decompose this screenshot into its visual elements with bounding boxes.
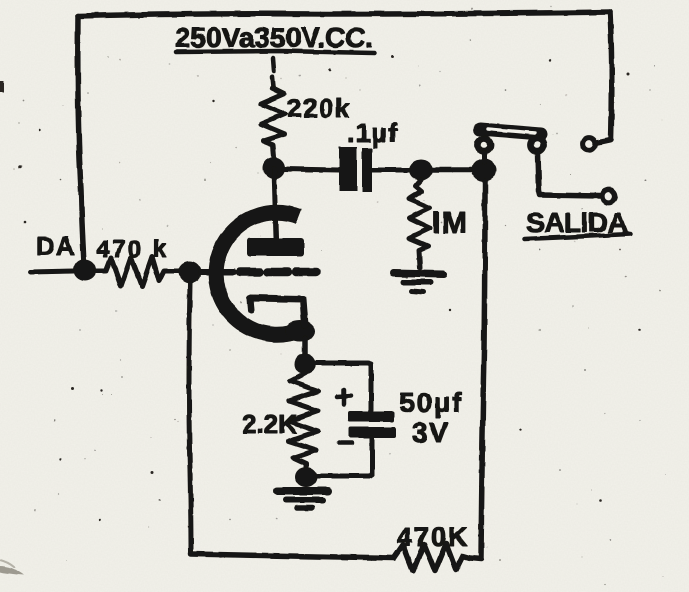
svg-text:DA: DA <box>36 231 77 261</box>
svg-text:470 k: 470 k <box>96 236 169 263</box>
node switch junction <box>472 159 497 182</box>
resistor 2.2k cathode <box>289 373 318 467</box>
resistor 220k (plate load) <box>261 88 285 157</box>
node B+ supply label 250V a 350V.CC. <box>175 22 374 87</box>
value label 1M <box>432 205 468 240</box>
node cathode bottom junction <box>295 467 317 487</box>
svg-text:.1µf: .1µf <box>347 118 398 148</box>
tube cathode bracket <box>250 298 305 325</box>
wire plate junction to coupling cap <box>284 169 339 170</box>
node plate junction <box>263 157 285 179</box>
switch throw right contact <box>530 138 543 151</box>
wire bottom-right corner up to switch node <box>470 181 485 559</box>
node cathode top junction <box>294 354 316 375</box>
switch arm (double line lever) <box>480 129 541 134</box>
wire top rail <box>78 12 610 16</box>
wire left side of feedback loop <box>189 283 191 554</box>
wire top-left vertical (DA node to top rail) <box>78 16 84 263</box>
resistor 1M (grid leak) <box>409 180 430 268</box>
svg-text:3V: 3V <box>412 417 449 448</box>
wire grid junction to tube <box>201 269 234 275</box>
svg-text:220k: 220k <box>287 93 351 123</box>
wire coupling cap to 1M node <box>372 168 411 173</box>
value label .1uf <box>347 118 398 148</box>
tube V1 envelope (C arc) <box>216 213 315 342</box>
tube plate bar <box>247 238 304 256</box>
wire switch left contact to junction <box>482 153 487 162</box>
wire 1M node to switch node <box>432 167 474 173</box>
polarity minus sign <box>339 441 352 446</box>
terminal top-right circle <box>583 138 596 151</box>
node 1M junction <box>409 160 433 181</box>
resistor 470k grid stopper <box>96 257 179 286</box>
tube grid (dashed) <box>240 268 318 277</box>
capacitor 50uf electrolytic <box>348 411 396 438</box>
ground under 1M <box>393 273 443 292</box>
label SALIDA <box>524 207 630 239</box>
node grid junction <box>179 261 202 283</box>
wire bypass cap bottom branch <box>317 438 372 476</box>
wire plate lead into tube <box>274 168 276 238</box>
wire cathode lead to cathode node <box>302 338 308 355</box>
svg-text:2.2K: 2.2K <box>242 409 297 439</box>
ground under 2.2k <box>277 491 328 508</box>
switch pole left contact <box>477 138 490 151</box>
wire right vertical from top rail down to output terminal <box>597 12 612 143</box>
svg-text:250Va350V.CC.: 250Va350V.CC. <box>175 22 373 53</box>
svg-text:470K: 470K <box>397 522 470 552</box>
wire bypass cap top branch <box>316 363 371 410</box>
svg-text:IM: IM <box>432 205 468 240</box>
wire bottom rail <box>191 554 394 558</box>
terminal salida output circle <box>603 190 616 203</box>
wire switch right contact to salida terminal <box>538 153 600 196</box>
svg-text:50µf: 50µf <box>399 387 464 418</box>
capacitor .1uf coupling <box>339 147 372 192</box>
value label 220k <box>287 93 351 123</box>
node DA junction <box>74 259 97 281</box>
value label 470K <box>397 522 470 552</box>
value label 50uf 3V <box>399 387 464 448</box>
polarity plus sign <box>337 390 351 404</box>
value label 2.2K <box>242 409 297 439</box>
label DA input <box>36 231 77 261</box>
resistor 470K feedback <box>394 544 470 571</box>
value label 470k <box>96 236 169 263</box>
wire DA input lead <box>30 271 74 272</box>
